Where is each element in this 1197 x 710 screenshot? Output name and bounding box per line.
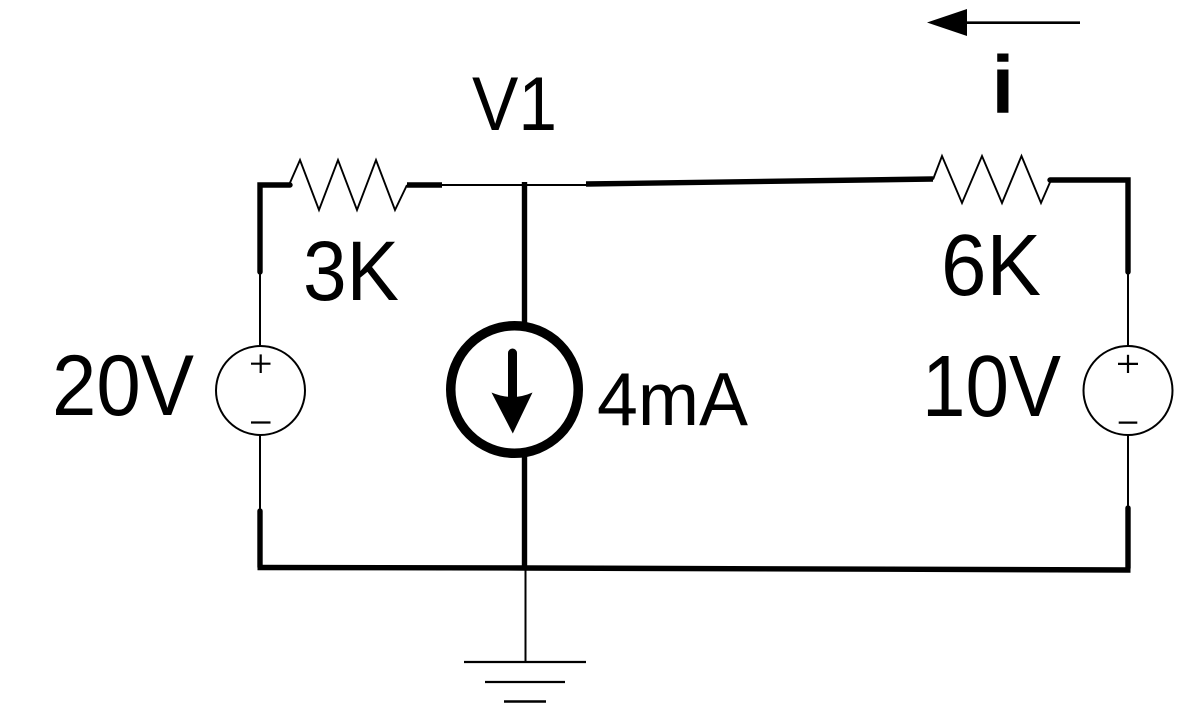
wire: right rail thin segment below 10V source	[1127, 435, 1129, 509]
wire: left rail bottom thick segment	[257, 511, 262, 567]
wire: stem from node V1 down to current source	[522, 182, 527, 323]
wire: stem from current source down to bottom rail	[522, 456, 527, 568]
wire: left rail top thick segment	[260, 185, 290, 272]
wire: left rail thin segment below 20V source	[259, 435, 261, 512]
wire: right rail thin segment above 10V source	[1127, 272, 1129, 346]
svg-text:V1: V1	[472, 62, 557, 147]
resistor 3K zigzag	[289, 160, 407, 210]
voltage source 20V	[216, 346, 305, 435]
voltage source 10V	[1084, 346, 1173, 435]
wire: right rail bottom thick segment	[1125, 508, 1130, 568]
ground	[464, 568, 586, 702]
resistor 6K zigzag	[933, 156, 1051, 203]
svg-text:4mA: 4mA	[597, 357, 748, 441]
wire: thick slanted wire from V1 node to 6K	[586, 179, 933, 184]
svg-text:10V: 10V	[922, 338, 1061, 435]
current arrow i	[927, 9, 1080, 36]
svg-text:6K: 6K	[941, 217, 1041, 314]
svg-text:3K: 3K	[303, 224, 399, 318]
wire: left rail thin segment above 20V source	[259, 272, 261, 346]
wire: thin top wire through node V1	[440, 184, 587, 186]
svg-text:i: i	[992, 40, 1015, 131]
wire: right rail top thick segment	[1050, 180, 1128, 272]
wire: thick stub right of 3K	[407, 182, 442, 187]
svg-text:20V: 20V	[52, 338, 194, 434]
current source 4mA	[451, 326, 579, 454]
wire: bottom rail	[258, 568, 1131, 571]
